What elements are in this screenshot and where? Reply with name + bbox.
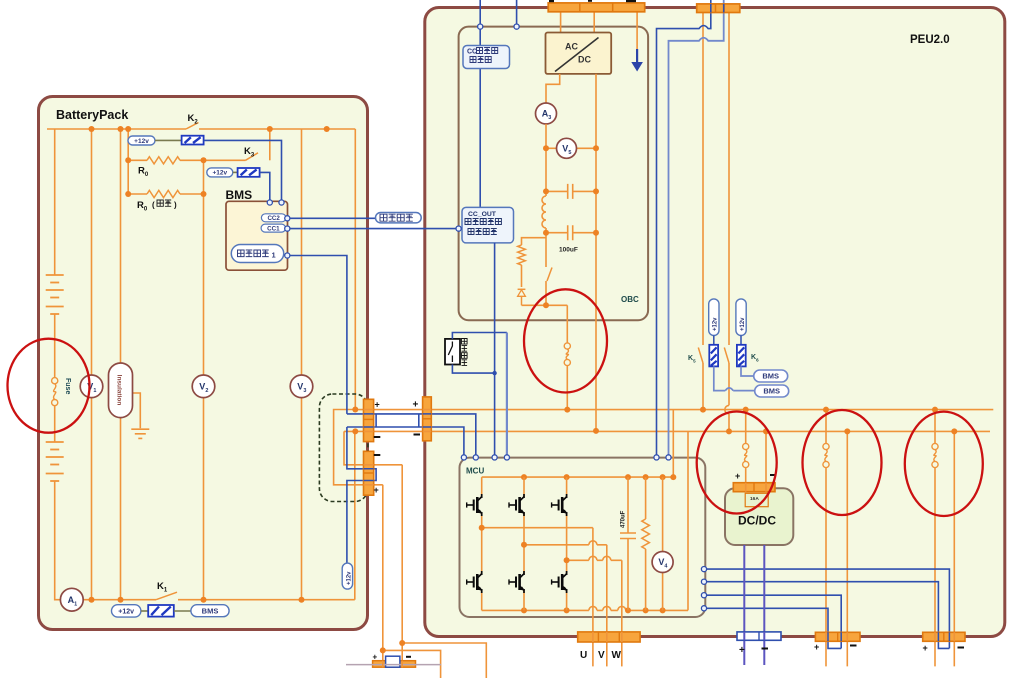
wire DCDC low out xyxy=(743,545,745,665)
svg-text:+12v: +12v xyxy=(118,608,134,615)
wire hv int 2 xyxy=(669,0,724,455)
label midc minus xyxy=(850,645,857,647)
pill Insulation xyxy=(109,363,133,418)
wire Insulation drop xyxy=(120,129,122,600)
svg-text:OBC: OBC xyxy=(621,295,639,304)
box CC-OUT xyxy=(462,207,514,243)
connector DCDC out xyxy=(737,632,781,640)
wire battery left top xyxy=(54,129,56,275)
svg-text:BatteryPack: BatteryPack xyxy=(56,108,128,122)
node MCU r1 xyxy=(701,567,706,572)
wire resistor branch xyxy=(522,238,547,245)
wire MCU B- feed xyxy=(687,431,689,610)
transistor Q6 xyxy=(552,581,559,583)
svg-text:+: + xyxy=(374,485,379,495)
svg-text:U: U xyxy=(580,650,587,661)
wire MCU B+ feed xyxy=(672,410,674,478)
svg-text:BMS: BMS xyxy=(763,387,780,396)
svg-text:+: + xyxy=(375,400,380,410)
svg-text:100uF: 100uF xyxy=(559,247,578,254)
wire MCU out3 xyxy=(707,595,842,648)
fuse dcdc feed xyxy=(745,410,747,444)
relay K5 xyxy=(709,299,719,336)
wire V1 drop xyxy=(91,129,93,600)
wire pin jumper left minus xyxy=(344,431,402,464)
svg-text:CC_OUT: CC_OUT xyxy=(468,211,497,218)
battery cells upper xyxy=(46,274,64,276)
transistor Q4 xyxy=(467,581,474,583)
connector battery lower xyxy=(364,451,374,495)
svg-text:16A: 16A xyxy=(750,496,759,502)
fuse branch3 xyxy=(934,410,936,444)
svg-text:+: + xyxy=(739,645,745,656)
wire ground branch xyxy=(133,393,141,428)
svg-text:+12v: +12v xyxy=(713,317,719,331)
wire dcdc minus xyxy=(765,431,767,482)
svg-text:(: ( xyxy=(152,201,155,210)
label bsmall minus xyxy=(406,656,411,658)
hump K6 over B+ xyxy=(725,405,729,413)
node BMS in2 xyxy=(279,200,284,205)
svg-text:+: + xyxy=(735,471,740,481)
wire K2 coil to BMS xyxy=(204,140,282,201)
capacitor C1 xyxy=(546,184,596,199)
wire bottom bus xyxy=(83,599,355,601)
resistor mcu xyxy=(645,477,647,519)
node MCU r3 xyxy=(701,593,706,598)
node MCU t5 xyxy=(654,455,659,460)
wire overlay dcdcin xyxy=(746,483,766,492)
node BMS in1 xyxy=(267,200,272,205)
wire test-loop link xyxy=(290,256,347,414)
wire CC1 link xyxy=(290,228,459,230)
wire strip1 third feed xyxy=(636,12,638,49)
highlight ellipse fuse-branch3 xyxy=(905,412,983,516)
connector bottom small xyxy=(373,661,416,668)
highlight ellipse fuse-battery xyxy=(8,339,90,433)
wire A3 down xyxy=(545,124,547,191)
wire hv int 1 xyxy=(657,0,711,455)
meter V2 xyxy=(192,375,215,398)
pill fast-charge xyxy=(376,213,422,223)
wire B+ bus xyxy=(355,409,993,411)
wire precharge drop xyxy=(127,129,129,194)
wire resistor to diode xyxy=(521,265,523,287)
resistor R obc xyxy=(518,245,526,265)
fuse obc xyxy=(566,305,568,343)
block BatteryPack xyxy=(39,97,368,630)
svg-text:V: V xyxy=(598,650,605,661)
node MCU t6 xyxy=(666,455,671,460)
wire pin jumper left plus xyxy=(334,410,383,485)
svg-text:CC: CC xyxy=(467,49,477,56)
svg-text:DC: DC xyxy=(578,55,591,65)
label conn minus1 xyxy=(374,436,381,438)
wire branch3 minus xyxy=(953,431,955,666)
switch K6 blade xyxy=(724,348,729,364)
transistor Q2 xyxy=(509,504,516,506)
svg-text:1: 1 xyxy=(272,251,276,260)
wire K3 vertical xyxy=(269,129,271,160)
svg-text:PEU2.0: PEU2.0 xyxy=(910,34,950,46)
wire column 2 xyxy=(523,477,525,610)
svg-text:CC2: CC2 xyxy=(267,215,280,222)
ground xyxy=(131,429,149,438)
block DC/DC xyxy=(725,488,793,545)
wire overlay strip2 blue xyxy=(711,4,724,13)
resistor R0 row2 xyxy=(128,193,203,195)
meter A3 xyxy=(536,103,557,124)
wire K6 line xyxy=(728,13,730,406)
diode D1 xyxy=(518,288,526,290)
connector UVW xyxy=(578,632,640,642)
junction dots bottom bus xyxy=(89,597,95,603)
wire MCU out4 xyxy=(707,608,842,648)
junction dots branch2 xyxy=(823,407,829,413)
wire K5 to BMS xyxy=(714,366,755,390)
gray line xyxy=(346,664,441,666)
svg-text:+: + xyxy=(413,400,419,411)
connector battery upper xyxy=(364,399,374,441)
wire mid rail 2 xyxy=(524,544,607,546)
meter A1 xyxy=(60,588,83,611)
wire overlay bottomsmall xyxy=(383,661,402,668)
fuse Fuse xyxy=(52,378,58,384)
wire bleed bottom xyxy=(452,365,494,374)
transistor Q1 xyxy=(467,504,474,506)
wire HVIL lower loop xyxy=(347,427,376,563)
junction dots connector xyxy=(352,407,358,413)
wire overlay uvw xyxy=(593,632,622,642)
box AC/DC xyxy=(546,33,612,74)
junction dots rails xyxy=(521,474,527,480)
switch K3 blade xyxy=(246,153,259,161)
wire column 3 xyxy=(566,477,568,610)
fuse branch2 xyxy=(825,410,827,444)
svg-text:AC: AC xyxy=(565,42,578,52)
wire rail switch xyxy=(545,233,547,306)
box bleed-switch xyxy=(445,339,460,365)
wire overlay dcdcout xyxy=(744,632,764,640)
pill BMS r1 xyxy=(754,370,788,382)
svg-text:470uF: 470uF xyxy=(621,510,627,528)
block OBC xyxy=(459,27,648,321)
wire top bus xyxy=(47,128,355,130)
wire phase W xyxy=(621,560,623,666)
wire phase U xyxy=(592,528,594,667)
svg-text:): ) xyxy=(174,201,177,210)
wire battery bottom xyxy=(55,481,61,600)
wire strip1 feeds xyxy=(561,12,595,33)
connector DCDC in xyxy=(733,483,775,492)
wire MCU out1 xyxy=(707,569,950,648)
junction dots branch3 xyxy=(932,407,938,413)
node MCU t3 xyxy=(492,455,497,460)
wire K5 line xyxy=(702,13,704,410)
wire K3 coil to BMS xyxy=(260,172,270,201)
wire column 1 xyxy=(481,477,483,610)
resistor R0 row1 xyxy=(128,159,203,161)
svg-text:BMS: BMS xyxy=(762,372,779,381)
svg-text:Insulation: Insulation xyxy=(116,375,123,406)
svg-text:BMS: BMS xyxy=(202,606,219,615)
wire V3 line xyxy=(301,129,303,600)
node MCU r2 xyxy=(701,579,706,584)
arrow charge-gun down xyxy=(636,49,638,63)
label rightc minus xyxy=(958,647,965,649)
svg-text:+12v: +12v xyxy=(212,170,227,177)
junction dots resistor rows xyxy=(125,157,131,163)
wire mid rail 3 xyxy=(567,559,622,561)
junction dots dcdc xyxy=(743,407,749,413)
junction dots top bus xyxy=(89,126,95,132)
svg-text:BMS: BMS xyxy=(226,188,253,202)
relay K3 coil chain xyxy=(207,168,233,177)
box fuse 16A xyxy=(745,493,768,506)
node MCU r4 xyxy=(701,606,706,611)
relay K1 chain xyxy=(112,605,141,617)
wire bottom bus corner up xyxy=(354,431,356,599)
wire gap drop outer xyxy=(383,485,441,678)
wire ACDC right rail xyxy=(595,74,597,431)
wire overlay battery conn lower xyxy=(364,465,374,485)
wire bus right drop to connector xyxy=(354,129,356,410)
meter V5 row xyxy=(546,147,557,149)
capacitor 470uF xyxy=(620,477,636,610)
switch K1 blade xyxy=(156,592,177,600)
wire bleed drop xyxy=(506,333,508,456)
switch K2 blade xyxy=(186,123,199,130)
wire MCU top rail xyxy=(482,476,674,478)
highlight ellipse fuse-dcdc xyxy=(697,412,777,514)
wire phase V xyxy=(606,545,608,667)
pill BMS r2 xyxy=(755,385,789,397)
highlight ellipse fuse-branch2 xyxy=(803,410,882,515)
junction dots obc xyxy=(543,145,549,151)
svg-text:+12v: +12v xyxy=(740,317,746,331)
wire CC2 link xyxy=(290,217,376,219)
wire K6 to BMS xyxy=(741,366,754,376)
label conn minus mid xyxy=(414,434,421,436)
pill CC1 xyxy=(261,224,286,232)
svg-text:W: W xyxy=(612,650,622,661)
wire overlay midconn xyxy=(826,632,847,641)
wire V4 branch xyxy=(662,477,664,610)
node OBC cc2 xyxy=(478,24,483,29)
wire cc signal drop xyxy=(479,29,481,207)
junction dots feeds xyxy=(700,407,706,413)
box CC-signal xyxy=(463,46,510,69)
meter V1 xyxy=(80,375,103,398)
node test-loop xyxy=(285,253,290,258)
highlight ellipse fuse-obc xyxy=(524,289,607,392)
svg-text:MCU: MCU xyxy=(466,467,484,476)
wire HVIL upper xyxy=(347,414,476,455)
connector strip obc-top xyxy=(548,3,645,12)
label dout minus xyxy=(762,648,769,650)
wire gap drop inner xyxy=(402,465,486,678)
wire diode bottom rail xyxy=(522,304,568,306)
transistor Q3 xyxy=(552,504,559,506)
svg-text:+: + xyxy=(923,643,928,653)
connector out right xyxy=(923,632,965,641)
wire V2 line xyxy=(203,160,205,599)
switch K5 blade xyxy=(698,348,703,364)
transistor Q5 xyxy=(509,581,516,583)
wire fuse to battery2 xyxy=(54,406,56,442)
svg-text:+: + xyxy=(373,653,378,662)
wire battery mid xyxy=(54,314,56,378)
capacitor C2 100uF xyxy=(546,225,596,240)
wire mid rail 1 xyxy=(482,527,593,529)
wire MCU bottom rail xyxy=(482,609,688,611)
wire CCOUT to MCU xyxy=(494,243,496,455)
connector peu side xyxy=(423,397,432,441)
svg-text:Fuse: Fuse xyxy=(64,378,71,394)
meter V4 xyxy=(652,552,673,573)
relay K6 xyxy=(736,299,746,336)
block PEU2.0 xyxy=(425,8,1005,637)
pill test-loop xyxy=(231,245,283,263)
svg-text:DC/DC: DC/DC xyxy=(738,514,776,528)
wire overlay battery conn xyxy=(364,410,432,432)
battery cells lower xyxy=(46,441,64,443)
node MCU t1 xyxy=(461,455,466,460)
svg-text:+: + xyxy=(814,642,819,652)
pill +12v hvil xyxy=(342,563,352,589)
connector strip aux-top xyxy=(697,4,740,13)
svg-text:+12v: +12v xyxy=(347,571,353,585)
label dcdc minus xyxy=(770,474,777,476)
node MCU t4 xyxy=(504,455,509,460)
wire K3 row xyxy=(204,159,246,161)
connector out mid xyxy=(815,632,860,641)
inductor L1 xyxy=(542,191,546,232)
label strip letters xyxy=(549,0,554,2)
wire branch2 minus xyxy=(846,431,848,666)
wire overlay battery conn blue xyxy=(364,414,432,427)
relay K2 coil chain xyxy=(128,136,155,145)
wire overlay rightconn xyxy=(935,632,954,641)
node MCU t2 xyxy=(473,455,478,460)
node OBC cc1 xyxy=(514,24,519,29)
svg-text:+12v: +12v xyxy=(134,138,149,145)
wire MCU out2 xyxy=(707,582,950,649)
pill CC2 xyxy=(261,214,286,222)
block MCU xyxy=(460,458,706,617)
meter V3 xyxy=(290,375,313,398)
box BMS xyxy=(226,201,288,270)
dashed interlock outline xyxy=(319,394,368,502)
wire ACDC left out xyxy=(546,74,560,103)
label conn minus2 xyxy=(374,454,381,456)
wire B- bus xyxy=(344,430,990,432)
switch obc blade xyxy=(547,268,552,282)
svg-text:CC1: CC1 xyxy=(267,225,280,232)
wire bleed top xyxy=(452,333,507,339)
